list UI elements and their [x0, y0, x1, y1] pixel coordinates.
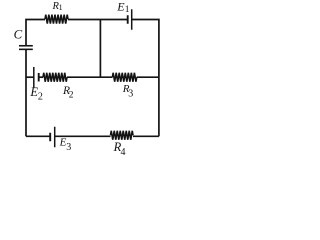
wire bottom-left: corner to E3 short bar — [26, 135, 50, 137]
wire top-left: corner to R1 — [26, 20, 45, 46]
battery E2 long plate — [33, 67, 35, 88]
svg-text:4: 4 — [121, 147, 126, 158]
battery E1 short plate — [127, 15, 129, 24]
wire left edge below capacitor C — [25, 50, 27, 136]
resistor R1 — [45, 15, 68, 24]
wire top-mid: R1 to E1 short bar — [68, 19, 128, 21]
wire bottom-mid: E3 tall bar to R4 — [55, 135, 111, 137]
svg-text:1: 1 — [59, 3, 63, 12]
svg-text:1: 1 — [125, 5, 130, 15]
resistor R4 — [111, 131, 134, 140]
wire middle-right: R3 to right edge — [137, 76, 159, 78]
wire middle-left: left edge to E2 tall bar — [26, 76, 34, 78]
battery E3 short plate — [49, 133, 51, 142]
svg-text:2: 2 — [69, 91, 74, 101]
svg-text:2: 2 — [38, 92, 43, 103]
wire right edge lower half — [158, 77, 160, 136]
resistor R3 — [112, 73, 136, 82]
wire middle vertical (node) — [99, 20, 101, 79]
wire middle: R2 to node to R3 — [67, 76, 112, 78]
wire bottom-right: R4 to bottom-right corner — [133, 135, 159, 137]
capacitor C plates — [19, 45, 33, 47]
svg-text:C: C — [14, 28, 23, 42]
battery E1 long plate — [131, 9, 133, 30]
battery E3 long plate — [54, 127, 56, 148]
svg-text:3: 3 — [128, 89, 133, 100]
wire middle: E2 short bar to R2 — [39, 76, 43, 78]
battery E2 short plate — [38, 73, 40, 82]
resistor R2 — [43, 73, 67, 82]
wire top-right: E1 tall bar to top-right corner down to middle wire level — [132, 20, 159, 78]
svg-text:3: 3 — [66, 142, 71, 153]
